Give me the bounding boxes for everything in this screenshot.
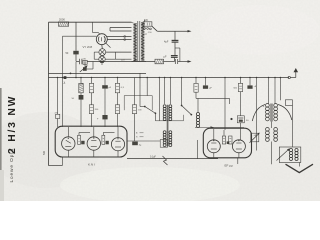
output transformer Tr2 secondary bbox=[274, 104, 278, 108]
voltage selector plate bbox=[143, 22, 152, 26]
IF transformer Tr1 secondary top bbox=[169, 105, 172, 108]
tube V3 hexode bbox=[87, 137, 100, 150]
tube V1 diagonal lead bbox=[106, 43, 111, 48]
wire R9 to AF line bbox=[134, 114, 136, 141]
svg-text:2000: 2000 bbox=[59, 18, 65, 22]
corner box at speaker feed bbox=[285, 100, 292, 106]
wire C13 into right block bbox=[240, 123, 242, 140]
wire AVC line bbox=[195, 127, 244, 129]
capacitor C10 coupling blob bbox=[132, 142, 138, 146]
resistor R4 hatched bbox=[80, 78, 82, 84]
svg-text:4µF: 4µF bbox=[164, 41, 169, 44]
resistor r between tubes 2 bbox=[102, 135, 105, 144]
scale lamp La2 bbox=[99, 56, 105, 62]
wire trimmer stub right bbox=[87, 68, 93, 70]
wire drop x147.2 bbox=[146, 78, 148, 96]
wire T1 bottom rail bbox=[132, 60, 147, 62]
wire drop x159.3 bbox=[158, 78, 160, 121]
potentiometer P1 with arrow bbox=[251, 133, 259, 142]
tube V5 bbox=[207, 140, 220, 153]
resistor R10 bbox=[195, 78, 197, 84]
power transformer T1 primary winding bbox=[133, 23, 136, 61]
speaker cone bbox=[286, 164, 314, 172]
wire drop x256.5 plus rail bbox=[256, 78, 258, 151]
tube V2 internal leads bbox=[67, 127, 69, 137]
wire drop x140 band switch feed bbox=[139, 73, 141, 106]
resistor in block 2 b bbox=[229, 136, 232, 144]
wire S2 bottom drop bbox=[154, 113, 156, 121]
tube block 1 envelope bbox=[55, 126, 127, 157]
capacitor C6 470 bbox=[56, 114, 60, 118]
wire drop x62.5 bbox=[62, 78, 64, 128]
resistor R6 200 bbox=[91, 93, 93, 105]
wire AF coupling bbox=[128, 140, 161, 142]
resistor r between tubes 1 bbox=[78, 135, 81, 144]
wire row A continues bbox=[87, 61, 155, 63]
wire drop from row A bbox=[75, 62, 77, 78]
switch S2 wave band contact bbox=[144, 106, 146, 108]
wire drop x275.0 bbox=[274, 78, 276, 104]
tube V3 internal leads bbox=[93, 127, 95, 137]
IF transformer Tr1 primary top bbox=[163, 105, 166, 108]
wire link y98 to x229.5 bbox=[229, 98, 231, 104]
wire R11 down to C13 bbox=[240, 92, 242, 116]
svg-text:VY 2C8: VY 2C8 bbox=[83, 45, 93, 49]
wire drop x268.6 bbox=[268, 78, 270, 104]
wire horizontal y98.4 bbox=[196, 97, 230, 99]
tube V1 top lead bbox=[91, 22, 93, 32]
output transformer core bbox=[270, 104, 272, 122]
wire left rail vertical bbox=[48, 22, 50, 165]
wire to plug arrow N bbox=[178, 61, 188, 63]
wire drop x181.6 bbox=[181, 78, 183, 106]
svg-text:0,1µF: 0,1µF bbox=[150, 156, 157, 158]
wire box to trimmer bbox=[84, 64, 86, 67]
wire right vertical x292 bbox=[291, 105, 293, 147]
resistor R3 bbox=[155, 59, 164, 64]
feedback loop wire rectangle bbox=[124, 96, 152, 111]
trimmer capacitor blob with arrow bbox=[83, 67, 87, 71]
wire mains switch line bbox=[127, 158, 218, 160]
wire drop x57.5 bbox=[57, 78, 59, 115]
wire R10 down bbox=[195, 92, 197, 98]
wire into block x57.5 bbox=[57, 119, 59, 128]
tube V6 cathode lead bbox=[238, 153, 240, 158]
switch S3 wave band contact bbox=[181, 105, 183, 107]
wire into block x105 bbox=[104, 119, 106, 127]
wire mains lead N bbox=[76, 61, 79, 63]
svg-text:µF: µF bbox=[164, 56, 167, 59]
tube V4 output pentode bbox=[111, 138, 124, 151]
IF transformer Tr1 secondary bottom bbox=[169, 131, 172, 134]
wire top rail bbox=[49, 21, 132, 23]
capacitor C4 plates bbox=[79, 59, 81, 65]
capacitor blob 2 bbox=[106, 141, 109, 145]
antenna symbol bbox=[288, 76, 290, 78]
tube block 2 envelope bbox=[203, 128, 251, 158]
wire right block left drop bbox=[197, 140, 199, 159]
switch S4 mains lightning bbox=[163, 156, 168, 165]
switch S3 lever bbox=[182, 106, 192, 115]
anode curve left bbox=[252, 105, 265, 122]
switch S2 lever bbox=[145, 107, 156, 114]
capacitor C5 plates bbox=[174, 59, 176, 64]
wire IFT top leads bbox=[164, 78, 166, 105]
electrolytic capacitor C1 bbox=[75, 22, 77, 51]
wire bus B upper bbox=[49, 72, 147, 74]
wire tube to transformer anode leads bbox=[107, 36, 131, 38]
svg-text:λ: λ bbox=[64, 81, 66, 85]
tube V6 bbox=[232, 140, 245, 153]
capacitor C8 bbox=[104, 78, 106, 86]
junction dots on chassis bus bbox=[57, 77, 59, 79]
switch S1 lever bbox=[152, 26, 157, 31]
power transformer T1 secondary winding bbox=[141, 22, 144, 61]
wire IFT bottom U link bbox=[155, 115, 183, 121]
rectifier tube V1 VY2 bbox=[96, 34, 107, 45]
wire mains lead L with plug arrow bbox=[157, 30, 187, 32]
resistor R1 mains dropper 2000 bbox=[58, 22, 68, 26]
capacitor blob 1 bbox=[81, 141, 84, 145]
wire link top 1 bbox=[79, 132, 90, 134]
electrolytic C7 bbox=[80, 93, 82, 95]
resistor R7 bbox=[117, 78, 119, 84]
wire chassis bus C bbox=[49, 77, 290, 79]
speaker transformer box bbox=[279, 147, 301, 163]
IF transformer Tr1 primary bottom bbox=[163, 131, 166, 134]
capacitor in block 2 bbox=[227, 141, 230, 144]
wire left rail bottom stub bbox=[49, 165, 63, 167]
node grid cap dot bbox=[230, 118, 232, 120]
capacitor C11 bbox=[205, 78, 207, 86]
resistor R9 1M bbox=[134, 78, 136, 105]
capacitor C3 4uF bbox=[171, 55, 178, 57]
capacitor C2 4uF bbox=[174, 31, 176, 40]
speaker adjustment arrow bbox=[277, 150, 289, 161]
svg-text:1M: 1M bbox=[138, 110, 141, 112]
transformer T1 core bbox=[137, 21, 139, 62]
wire drop x225 into right block bbox=[224, 78, 226, 131]
tube V5 cathode lead bbox=[213, 153, 215, 158]
resistor in block 2 a bbox=[222, 136, 225, 144]
svg-text:500: 500 bbox=[43, 150, 46, 155]
wire into block x224 bbox=[223, 130, 225, 136]
coupling component box bbox=[160, 140, 167, 148]
resistor R5 bbox=[91, 78, 93, 84]
wire lamp chain bbox=[101, 45, 104, 49]
tube V2 triode bbox=[62, 137, 75, 150]
svg-text:2 H/3 NW: 2 H/3 NW bbox=[7, 95, 18, 154]
svg-text:K.N I: K.N I bbox=[88, 162, 95, 166]
wire T1 top leads bbox=[132, 22, 134, 25]
node lambda wave tap bbox=[64, 76, 67, 79]
wire into block x117.5 bbox=[117, 114, 119, 127]
scale lamp La1 bbox=[99, 49, 106, 56]
wire heater leads with terminals bbox=[110, 27, 132, 29]
wire x271.5 down to speaker bbox=[271, 122, 273, 129]
wire into block x91.5 bbox=[91, 114, 93, 127]
capacitor C13 5000 bbox=[237, 116, 244, 123]
capacitor C12 bbox=[249, 78, 251, 86]
anode curve right bbox=[278, 105, 292, 121]
wire drop x280.4 bbox=[279, 78, 281, 101]
resistor R11 500 bbox=[240, 78, 242, 84]
page edge shading bbox=[0, 88, 2, 201]
svg-text:EF µµ: EF µµ bbox=[225, 164, 233, 168]
wire into block x81 bbox=[80, 100, 82, 127]
oscillator coil L1 bbox=[197, 98, 199, 112]
tube V4 internal leads bbox=[117, 127, 119, 138]
switch S1 mains contacts bbox=[144, 28, 146, 30]
capacitor C9 bbox=[104, 89, 106, 115]
speaker field coil pair bbox=[266, 128, 270, 132]
resistor R8 bbox=[117, 93, 119, 105]
output transformer Tr2 primary bbox=[266, 104, 270, 108]
wire grid line to left bbox=[63, 35, 97, 37]
wire cap junction jog bbox=[175, 47, 180, 49]
wire link top 2 bbox=[103, 132, 114, 134]
wire stub below block2 bbox=[237, 158, 239, 164]
svg-text:LW: LW bbox=[83, 59, 86, 61]
IF transformer core bbox=[166, 105, 168, 147]
resistor R2 small box bbox=[83, 60, 87, 64]
